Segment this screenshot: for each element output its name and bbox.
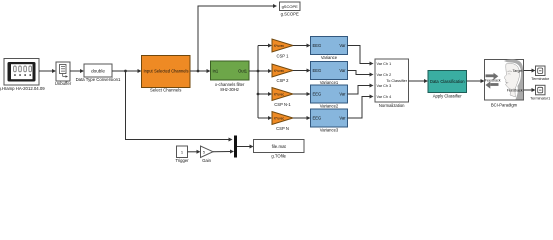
svg-text:EEG: EEG xyxy=(313,43,322,48)
svg-text:EEG: EEG xyxy=(313,92,322,97)
label x-channels filter 8Hz-30Hz xyxy=(215,82,245,92)
svg-text:g.SCOPE: g.SCOPE xyxy=(281,12,299,17)
wire Unbuffer to Data Type Conversion1 xyxy=(70,69,84,73)
svg-text:Trigger: Trigger xyxy=(175,158,189,163)
svg-text:Feedback: Feedback xyxy=(485,78,501,82)
block CSP 2 gain xyxy=(272,64,293,77)
svg-text:EEG: EEG xyxy=(313,68,322,73)
block Select Channels xyxy=(142,56,191,88)
svg-text:Var Ch 2: Var Ch 2 xyxy=(377,73,392,77)
arrow left gray xyxy=(486,81,499,88)
svg-text:8Hz-30Hz: 8Hz-30Hz xyxy=(220,87,239,92)
svg-text:Out1: Out1 xyxy=(238,69,248,74)
face sketch xyxy=(504,59,523,99)
svg-text:BCI-Paradigm: BCI-Paradigm xyxy=(491,102,518,107)
wire Gain to Mux xyxy=(213,150,234,154)
svg-text:Var Ch 1: Var Ch 1 xyxy=(377,62,392,66)
node junction bus row2 xyxy=(257,70,260,73)
svg-text:K*uvec: K*uvec xyxy=(274,117,285,121)
node junction on DTC wire xyxy=(124,70,127,73)
svg-text:Variance3: Variance3 xyxy=(320,128,339,133)
svg-text:Selected Channels: Selected Channels xyxy=(154,69,188,74)
svg-text:file.mat: file.mat xyxy=(272,144,287,149)
block Apply Classifier xyxy=(428,71,467,93)
svg-text:Var: Var xyxy=(339,92,346,97)
wire Data Type Conversion1 to Select Channels xyxy=(112,69,142,73)
block g.TOfile xyxy=(254,140,305,153)
svg-text:Gain: Gain xyxy=(202,158,212,163)
block Normalization xyxy=(375,59,409,102)
block gSCOPE xyxy=(280,2,301,11)
wire Variance1 to Normalization in2 xyxy=(348,71,374,77)
block Trigger xyxy=(177,146,188,158)
wire branch up to gSCOPE xyxy=(198,4,277,71)
svg-text:Data Type Conversion1: Data Type Conversion1 xyxy=(76,77,121,82)
svg-text:gSCOPE: gSCOPE xyxy=(282,4,299,9)
svg-text:Variance1: Variance1 xyxy=(320,80,339,85)
svg-text:double: double xyxy=(91,68,105,73)
block Terminator1 xyxy=(536,85,546,95)
wire CSP N-1 to Variance2 xyxy=(293,92,311,96)
block g.HIamp source xyxy=(4,59,39,86)
wire bus to CSP 1 xyxy=(258,44,272,48)
svg-text:CSP N-1: CSP N-1 xyxy=(274,102,291,107)
wire Variance3 to Normalization in4 xyxy=(348,95,374,119)
wire bus to CSP N xyxy=(258,116,272,120)
svg-text:CSP 2: CSP 2 xyxy=(276,78,289,83)
svg-text:CSP 1: CSP 1 xyxy=(276,53,289,58)
block BCI-Paradigm xyxy=(485,59,524,100)
block CSP N gain xyxy=(272,112,293,125)
svg-text:Terminator1: Terminator1 xyxy=(530,96,550,100)
svg-text:g.TOfile: g.TOfile xyxy=(271,153,286,158)
block Variance3 xyxy=(311,109,348,127)
wire CSP 2 to Variance1 xyxy=(293,69,311,73)
svg-text:In1: In1 xyxy=(213,69,219,74)
wire Mux to g.TOfile xyxy=(237,145,254,149)
block Terminator xyxy=(536,66,546,76)
wire Variance to Normalization in1 xyxy=(348,46,374,66)
svg-text:Var: Var xyxy=(339,43,346,48)
svg-text:K*uvec: K*uvec xyxy=(274,69,285,73)
block Variance xyxy=(311,37,348,55)
svg-text:Variance2: Variance2 xyxy=(320,104,339,109)
svg-text:Data: Data xyxy=(430,79,439,84)
block Unbuffer xyxy=(56,62,70,81)
svg-text:Unbuffer: Unbuffer xyxy=(55,81,72,86)
wire Trigger to Gain xyxy=(188,150,201,154)
block Gain xyxy=(201,146,214,158)
svg-text:Variance: Variance xyxy=(321,55,338,60)
svg-text:Feedback: Feedback xyxy=(507,88,523,92)
svg-text:K*uvec: K*uvec xyxy=(274,44,285,48)
wire Apply Classifier to BCI-Paradigm xyxy=(467,79,485,83)
svg-text:Var Ch 4: Var Ch 4 xyxy=(377,95,392,99)
block Mux xyxy=(234,136,237,158)
svg-text:Target: Target xyxy=(513,69,523,73)
svg-text:EEG: EEG xyxy=(313,116,322,121)
svg-text:To Classifier: To Classifier xyxy=(386,79,407,83)
wire filter to CSP bus xyxy=(249,46,258,119)
svg-text:g.HIamp HA-2012.04.09: g.HIamp HA-2012.04.09 xyxy=(0,86,45,91)
block Variance2 xyxy=(311,85,348,103)
svg-text:Var Ch 3: Var Ch 3 xyxy=(377,84,392,88)
wire Select Channels to filter xyxy=(190,69,211,73)
wire Feedback to Terminator1 xyxy=(524,88,536,92)
block Data Type Conversion1 xyxy=(84,64,112,77)
wire bus to CSP N-1 xyxy=(258,92,272,96)
svg-text:CSP N: CSP N xyxy=(276,126,289,131)
svg-text:Var: Var xyxy=(339,68,346,73)
svg-text:Input: Input xyxy=(144,69,154,74)
block Variance1 xyxy=(311,62,348,80)
svg-text:Terminator: Terminator xyxy=(531,77,550,81)
wire CSP N to Variance3 xyxy=(293,116,311,120)
arrow right gray xyxy=(486,73,499,80)
svg-text:Classification: Classification xyxy=(440,79,465,84)
svg-text:Select Channels: Select Channels xyxy=(150,88,181,93)
node junction bus row3 xyxy=(257,93,260,96)
svg-text:K*uvec: K*uvec xyxy=(274,93,285,97)
wire g.HIamp to Unbuffer xyxy=(39,69,56,73)
wire Variance2 to Normalization in3 xyxy=(348,84,374,95)
svg-text:Var: Var xyxy=(339,116,346,121)
svg-text:Normalization: Normalization xyxy=(379,103,405,108)
block x-channels filter xyxy=(211,61,250,80)
svg-text:5: 5 xyxy=(203,151,205,155)
wire Target to Terminator xyxy=(524,69,536,73)
wire branch down to Mux xyxy=(126,71,233,142)
wire bus to CSP 2 xyxy=(258,69,272,73)
node junction to scope branch xyxy=(197,70,200,73)
block CSP N-1 gain xyxy=(272,88,293,101)
wire Normalization to Apply Classifier xyxy=(409,79,429,83)
svg-text:Apply Classifier: Apply Classifier xyxy=(433,94,462,99)
wire CSP 1 to Variance xyxy=(293,44,311,48)
block CSP 1 gain xyxy=(272,39,293,52)
